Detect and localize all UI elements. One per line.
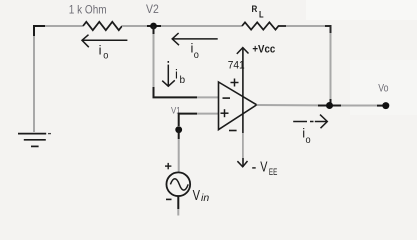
resistor R1 1 k Ohm [83,22,122,30]
output terminal dot [377,105,383,107]
source Vin minus sign [166,198,172,200]
node V2 junction dot [147,25,161,27]
output junction dot [318,105,341,107]
arrow +Vcc (up) [237,48,249,54]
arrow io (left, under R1) [82,35,127,48]
wire: below source [177,196,179,209]
arrow ib [162,61,175,86]
node V1 junction dot [175,126,182,133]
svg-text:Vo: Vo [378,83,388,95]
wire: op-amp output [257,104,318,106]
source Vin circle [166,172,190,196]
svg-text:i: i [99,42,102,57]
svg-text:1 k Ohm: 1 k Ohm [69,3,107,17]
arrow io (middle, right of V2) [172,33,218,45]
wire: right vertical down to output junction [330,33,332,99]
wire: RL to top-right corner [286,25,325,27]
source Vin sine wave [170,179,188,190]
wire: top left horizontal to R1 [45,25,83,27]
svg-text:+Vcc: +Vcc [252,44,275,56]
arrow -VEE (down) [237,161,247,167]
wire: V1 elbow to non-inverting input [179,114,197,126]
svg-text:V2: V2 [146,2,159,16]
op-amp U1 triangle [219,82,257,130]
op-amp non-inverting input plus [221,109,229,117]
wire: below V1 dot [178,130,180,139]
arrow io (output, right) [293,115,327,129]
svg-text:V: V [193,187,200,204]
wire: V2 to RL [161,25,242,27]
source Vin plus sign [165,163,171,169]
wire: left vertical down to ground [33,36,35,132]
resistor RL [242,22,286,29]
wire: top-right corner elbow [325,26,331,33]
wire: elbow to inverting input [154,87,198,97]
op-amp inverting input minus [223,97,231,99]
label -VEE [252,167,256,169]
svg-text:in: in [201,193,210,204]
wire: V2 vertical down [153,26,155,34]
svg-text:L: L [259,9,264,20]
svg-text:V: V [260,158,267,175]
op-amp supply minus (bottom) [229,130,237,132]
svg-text:o: o [306,135,311,146]
svg-text:b: b [180,74,186,86]
op-amp supply plus (top) [231,79,239,87]
supply line vertical through op-amp [242,48,244,133]
wire: top-left corner elbow [34,26,45,36]
svg-text:R: R [252,4,258,15]
svg-text:o: o [194,50,199,61]
wire: junction to output terminal [341,105,377,107]
svg-text:o: o [103,51,108,62]
wire: gray stub into inverting input [197,96,219,98]
wire: R1 to node V2 [122,25,147,27]
svg-text:i: i [175,67,178,82]
ground [18,134,51,147]
svg-text:EE: EE [269,167,277,178]
wire: black stub above junction [330,99,332,105]
